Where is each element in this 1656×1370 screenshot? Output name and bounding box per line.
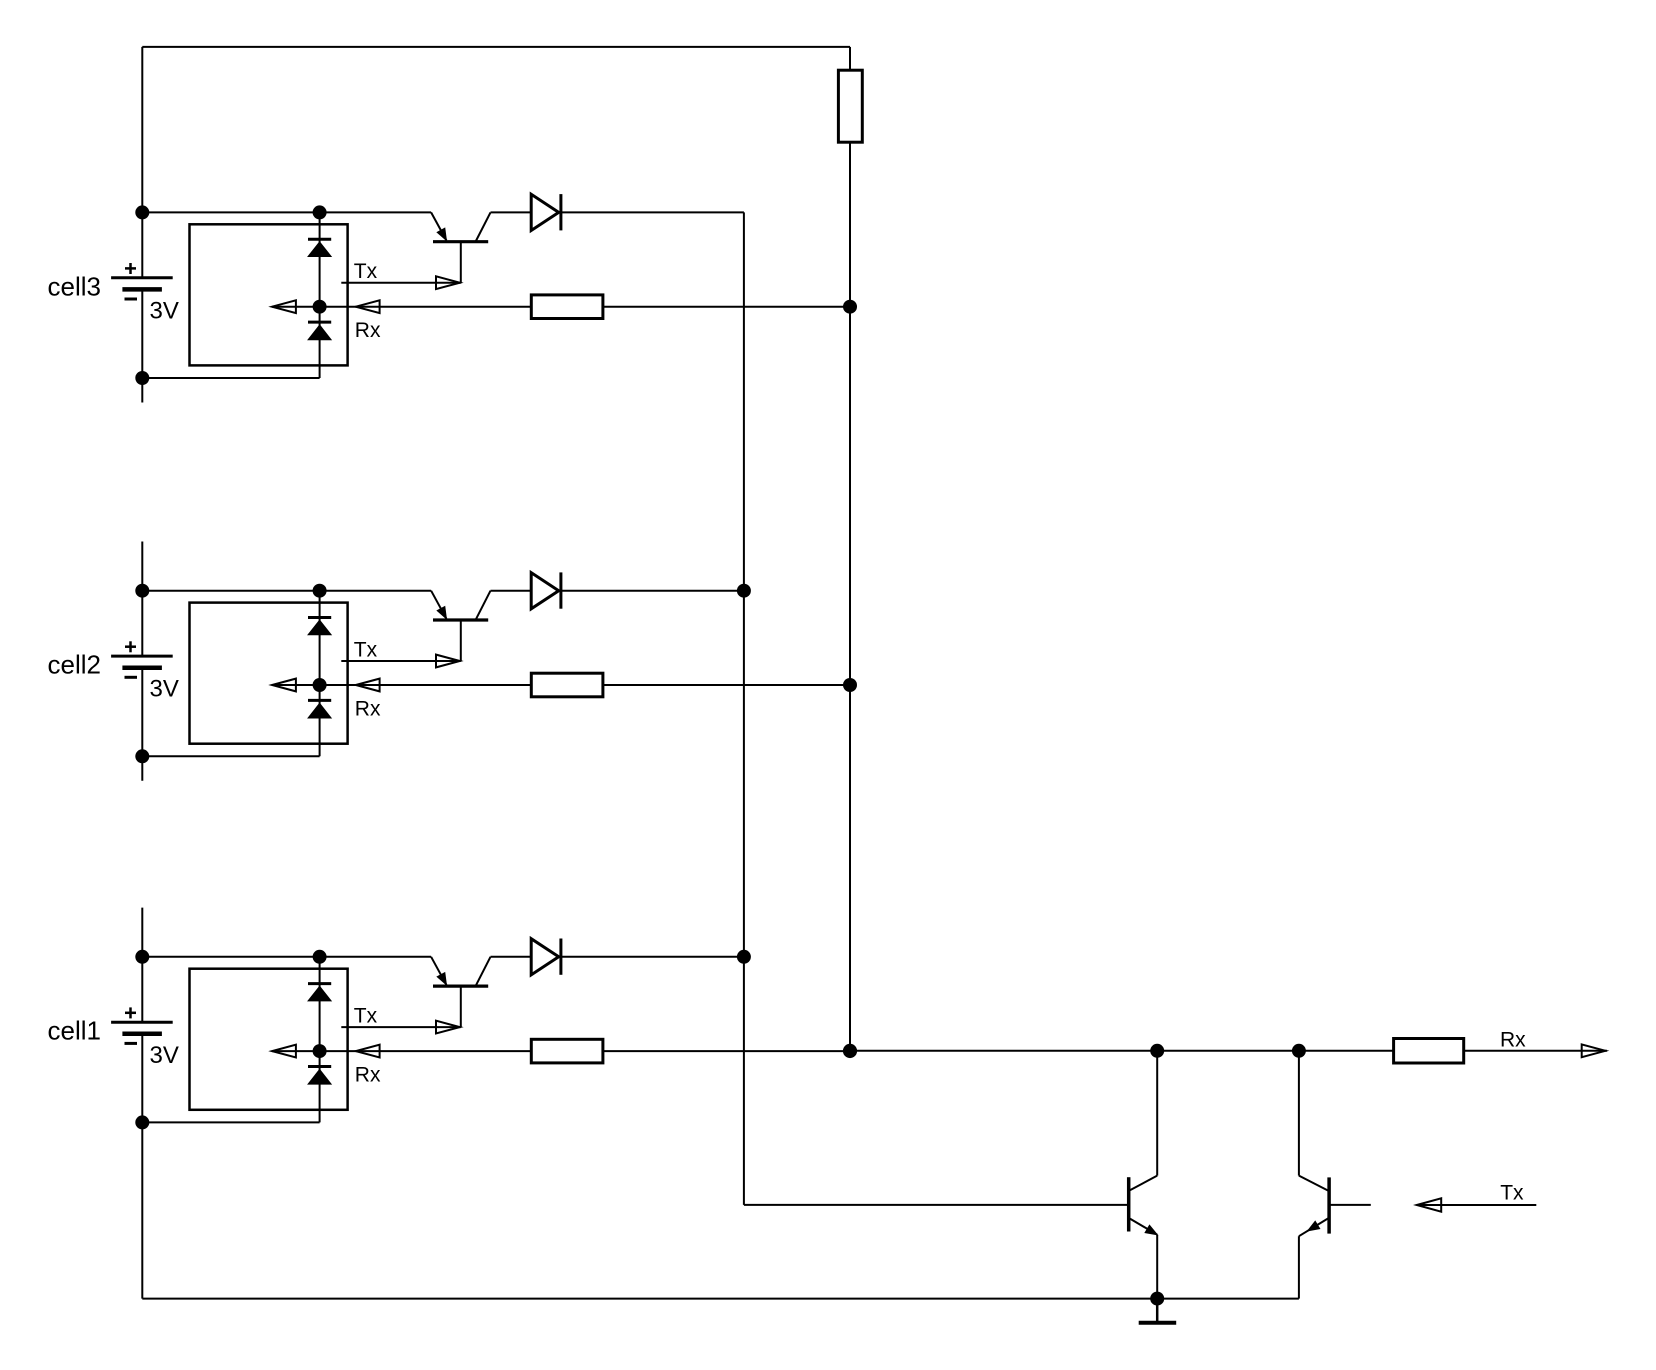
junction cell3 Rx node [313,300,327,314]
diode D3b [309,325,331,339]
arrow cell2 Tx to transistor [436,655,460,668]
transistor Q2 emitter [431,591,446,619]
arrow cell1 Rx into IC [272,1045,296,1058]
wire cell2 diode to middle net [561,590,744,592]
wire cell1 positive branch [142,956,431,958]
junction cell3 rail-top [135,205,149,219]
arrow cell3 Tx to transistor [436,276,460,289]
junction cell1 rail-top [135,950,149,964]
svg-text:3V: 3V [150,676,179,703]
arrow cell1 Rx at box edge [356,1045,380,1058]
resistor R2rx output [1394,1039,1464,1064]
IC box U1 [190,969,348,1110]
transistor Q1 collector [476,957,491,986]
diode D2b [309,704,331,718]
wire left rail stub above cell1 battery [141,908,143,1023]
diode D2s cathode bar [559,572,562,608]
arrow cell3 Rx into IC [272,300,296,313]
battery cell2 positive plate [111,655,173,658]
wire pull-up rail below resistor [849,142,851,1051]
resistor R3rx [531,295,603,319]
battery cell3 negative plate [122,287,161,292]
wire cell1 Rx inner [272,1050,320,1052]
transistor Q1 emitter wire [1156,1235,1158,1299]
transistor Q3 emitter [431,212,446,240]
transistor Q1 emitter [1130,1219,1157,1235]
transistor Q2 base bar [433,618,488,621]
junction cell2 Rx node [313,678,327,692]
transistor Q1 collector wire [1156,1051,1158,1176]
ground stem [1156,1299,1159,1323]
diode D1a cathode bar [308,982,331,985]
arrow cell3 Rx at box edge [356,300,380,313]
battery cell1 minus sign [125,1042,138,1045]
diode D1b cathode bar [308,1065,331,1068]
wire cell2 diode chain [319,591,321,757]
junction Q1 collector node [1150,1044,1164,1058]
wire cell2 Tx [341,660,461,662]
battery cell2 minus sign [125,676,138,679]
transistor Q3 base drop [460,242,462,283]
resistor R2rx [531,673,603,697]
transistor Q2 base drop [460,620,462,661]
battery cell3 minus sign [125,298,138,301]
wire cell1 negative return [142,1121,319,1123]
wire cell1 Rx to resistor [320,1050,532,1052]
diode D3s cathode bar [559,194,562,230]
transistor Q2 emitter [1299,1219,1328,1237]
junction cell3 box-top [313,205,327,219]
wire cell3 Rx to resistor [320,306,532,308]
junction cell1 Rx node [313,1044,327,1058]
diode D2s [531,573,559,609]
diode D3b cathode bar [308,321,331,324]
diode D2a cathode bar [308,616,331,619]
wire cell3 negative return [142,377,319,379]
junction cell3 rail-bottom [135,371,149,385]
transistor Q2 collector [1299,1176,1328,1191]
junction cell2 box-top [313,584,327,598]
wire left rail stub below cell2 battery [141,668,143,781]
wire cell2 positive branch [142,590,431,592]
svg-text:3V: 3V [150,1042,179,1069]
wire left rail stub below cell3 battery [141,289,143,402]
svg-text:Tx: Tx [354,260,378,283]
battery cell1 positive plate [111,1021,173,1024]
battery cell3 positive plate [111,276,173,279]
transistor Q2 collector [476,591,491,620]
arrow cell1 Tx to transistor [436,1021,460,1034]
junction cell2 Rx pull-up rail [843,678,857,692]
junction cell2 middle net [737,584,751,598]
junction cell1 rail-bottom [135,1115,149,1129]
diode D3s [531,194,559,230]
transistor Q1 base bar [433,984,488,987]
wire left rail below cell1 battery to ground rail [141,1034,143,1299]
wire cell2 Rx to resistor [320,684,532,686]
junction Q2 collector node [1292,1044,1306,1058]
svg-text:Tx: Tx [354,1004,378,1027]
wire left rail stub above cell2 battery [141,542,143,657]
wire top-right corner down to pull-up resistor [849,47,851,70]
wire cell3 Rx inner [272,306,320,308]
IC box U2 [190,603,348,744]
junction cell2 rail-bottom [135,749,149,763]
wire Tx input [1417,1204,1537,1206]
wire cell1 Rx to pull-up rail [603,1050,850,1052]
svg-text:cell2: cell2 [48,650,101,680]
junction cell1 Rx pull-up rail [843,1044,857,1058]
diode D1b [309,1070,331,1084]
junction cell1 middle net [737,950,751,964]
diode D1s cathode bar [559,939,562,975]
svg-text:Tx: Tx [354,638,378,661]
wire cell3 positive branch [142,211,431,213]
wire cell3 collector to diode [491,211,532,213]
svg-text:Rx: Rx [355,697,381,720]
transistor Q3 base bar [433,240,488,243]
transistor Q2 base wire [1329,1204,1371,1206]
wire cell1 diode chain [319,957,321,1123]
junction Rx rail end [843,1044,857,1058]
wire cell3 Tx [341,282,461,284]
svg-text:Tx: Tx [1500,1181,1524,1204]
svg-text:Rx: Rx [355,1064,381,1087]
IC box U3 [190,224,348,365]
wire cell3 diode to middle net [561,211,744,213]
battery cell1 plus sign [125,1012,136,1015]
junction cell3 Rx pull-up rail [843,300,857,314]
wire cell2 collector to diode [491,590,532,592]
arrow cell2 Rx at box edge [356,679,380,692]
diode D3a cathode bar [308,238,331,241]
junction ground node [1150,1292,1164,1306]
wire bottom ground rail [142,1298,1299,1300]
diode D3a [309,242,331,256]
svg-text:cell1: cell1 [48,1016,101,1046]
wire cell3 Rx to pull-up rail [603,306,850,308]
diode D2a [309,621,331,635]
resistor R1 pull-up [838,70,862,142]
wire cell1 collector to diode [491,956,532,958]
arrow cell2 Rx into IC [272,679,296,692]
transistor Q2 collector wire [1298,1051,1300,1176]
junction cell1 box-top [313,950,327,964]
arrow Rx output [1582,1044,1606,1057]
ground [1139,1321,1177,1325]
junction cell2 rail-top [135,584,149,598]
transistor Q2 base bar [1327,1177,1331,1233]
wire Rx output to connector [1464,1050,1607,1052]
arrow Tx input [1417,1198,1441,1211]
wire top supply rail [142,46,850,48]
transistor Q1 emitter [431,957,446,985]
svg-text:Rx: Rx [1500,1028,1526,1051]
wire middle vertical net (diode outputs to Q1 base) [743,212,745,1205]
transistor Q1 base bar [1127,1177,1131,1231]
transistor Q3 collector [476,212,491,241]
wire Rx output line [850,1050,1394,1052]
wire cell2 Rx to pull-up rail [603,684,850,686]
battery cell3 plus sign [125,267,136,270]
battery cell2 negative plate [122,665,161,670]
wire cell1 diode to middle net [561,956,744,958]
diode D2b cathode bar [308,699,331,702]
battery cell2 plus sign [125,645,136,648]
transistor Q1 base drop [460,986,462,1027]
wire left rail above cell3 battery [141,47,143,278]
wire from middle vertical net to Q1 base [744,1204,1129,1206]
svg-text:3V: 3V [150,297,179,324]
svg-text:Rx: Rx [355,319,381,342]
svg-text:cell3: cell3 [48,271,101,301]
diode D1a [309,987,331,1001]
battery cell1 negative plate [122,1032,161,1037]
transistor Q2 emitter wire [1298,1236,1300,1298]
wire cell1 Tx [341,1026,461,1028]
wire cell3 diode chain [319,212,321,378]
diode D1s [531,939,559,975]
wire cell2 Rx inner [272,684,320,686]
transistor Q1 collector [1130,1176,1157,1191]
resistor R1rx [531,1039,603,1063]
wire cell2 negative return [142,755,319,757]
